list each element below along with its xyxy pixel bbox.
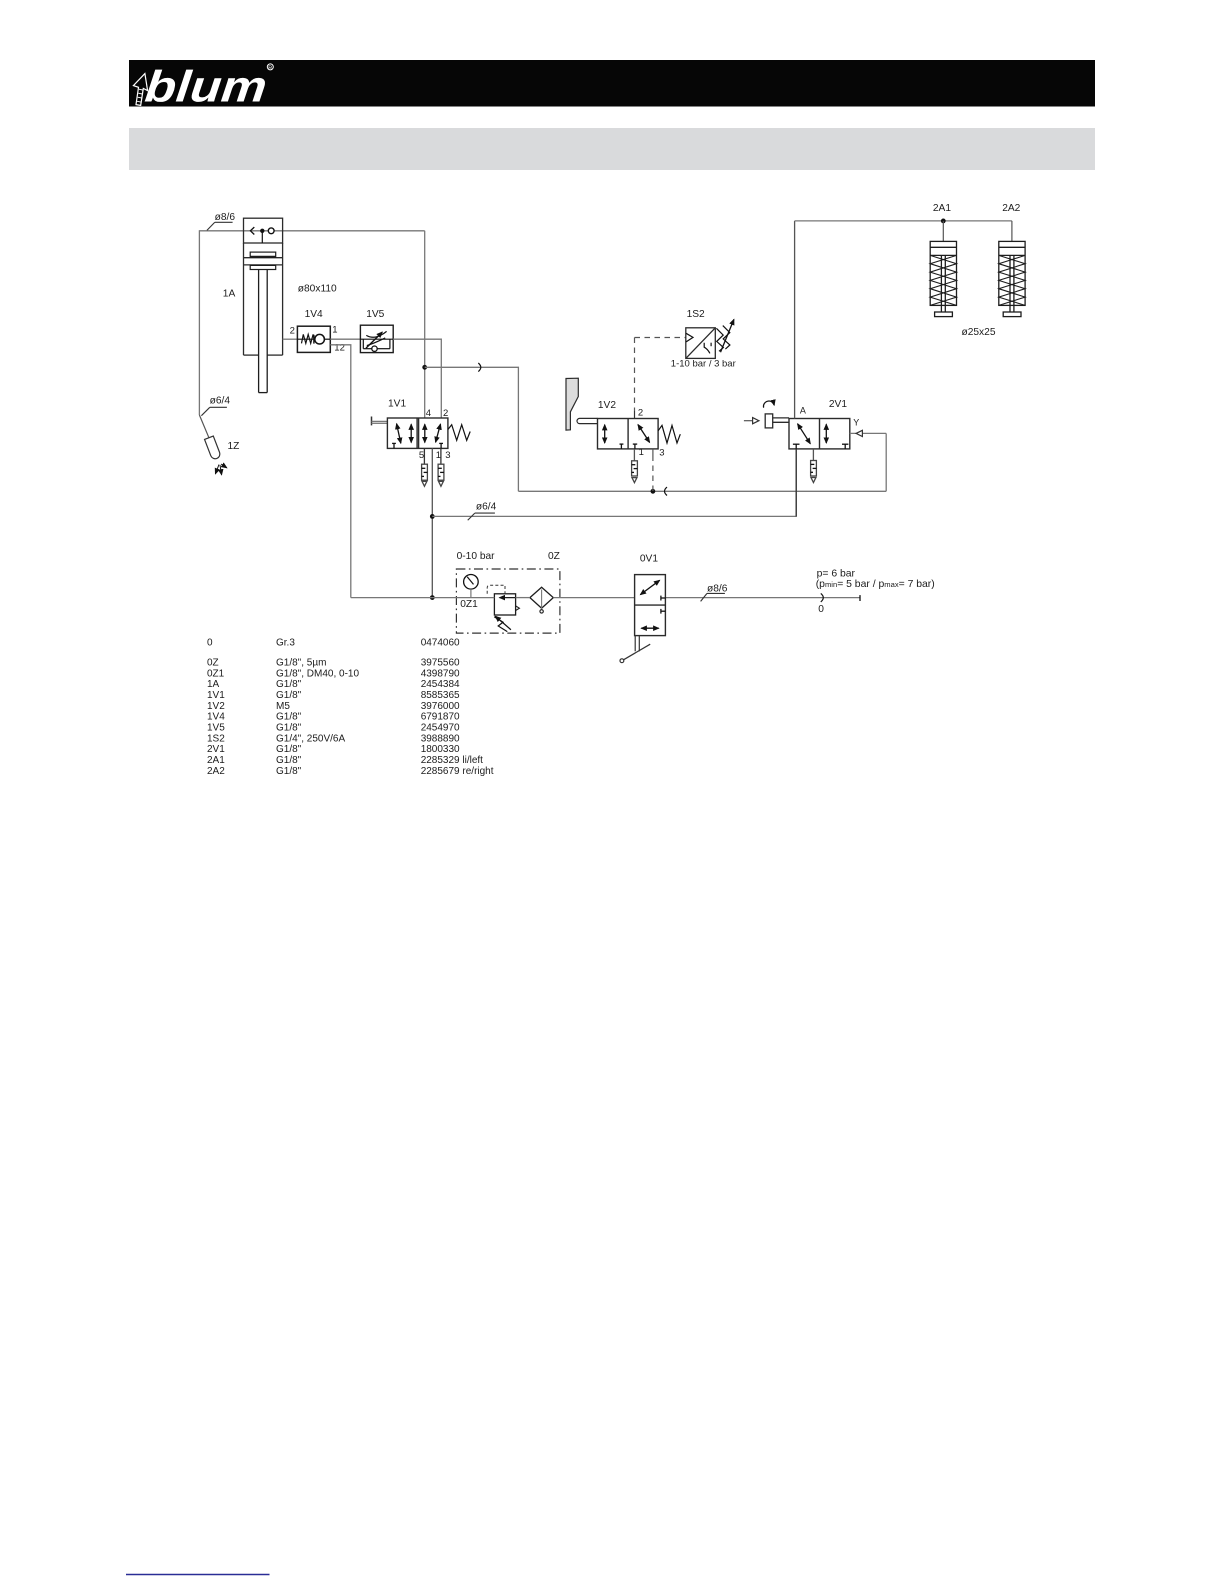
svg-text:0: 0 bbox=[818, 604, 824, 615]
label 1V4 bbox=[305, 309, 323, 320]
svg-text:ø25x25: ø25x25 bbox=[962, 327, 996, 338]
svg-text:ø80x110: ø80x110 bbox=[298, 284, 337, 295]
port label 3 (1V1) bbox=[445, 450, 450, 461]
svg-text:A: A bbox=[800, 406, 806, 416]
svg-text:G1/8": G1/8" bbox=[276, 723, 302, 734]
pressure regulator 0Z1 body bbox=[494, 594, 519, 615]
wire: junction right then down to lower manifold bbox=[425, 367, 519, 491]
valve 1V1 right chamber arrows bbox=[425, 424, 443, 448]
blum logo registered mark bbox=[267, 64, 273, 71]
port label 1 (1V1) bbox=[436, 450, 441, 461]
label 2V1 bbox=[829, 399, 847, 410]
node: junction 1V2 port 3 on manifold bbox=[651, 489, 656, 494]
wire: dashed pressure sensing line 1S2 to 1V2 port 2 bbox=[635, 338, 686, 419]
svg-text:1V1: 1V1 bbox=[388, 399, 406, 410]
cylinder 1A piston rod bbox=[259, 270, 268, 393]
valve 1V1 pilot connection bbox=[372, 417, 388, 426]
valve 0V1 body bbox=[635, 575, 666, 636]
valve 2V1 right chamber arrow bbox=[826, 424, 848, 449]
node: junction to 2A1 bbox=[941, 219, 946, 224]
svg-text:0: 0 bbox=[207, 638, 213, 649]
label ø80x110 bbox=[298, 284, 337, 295]
svg-text:2: 2 bbox=[290, 326, 295, 337]
pressure switch 1S2 spring and adjust arrow bbox=[716, 319, 734, 352]
label ø25x25 bbox=[962, 327, 996, 338]
port label A (2V1) bbox=[800, 406, 806, 416]
svg-text:ø6/4: ø6/4 bbox=[210, 395, 231, 406]
svg-text:G1/8": G1/8" bbox=[276, 679, 302, 690]
silencer on 1V1 port 3 bbox=[438, 464, 444, 486]
svg-text:1A: 1A bbox=[223, 289, 236, 300]
svg-text:2A1: 2A1 bbox=[933, 203, 951, 214]
port label 1 (1V4) bbox=[332, 325, 337, 336]
svg-text:3975560: 3975560 bbox=[421, 658, 460, 669]
supply terminal tick bbox=[859, 595, 861, 601]
svg-text:R: R bbox=[268, 65, 272, 71]
svg-text:G1/8": G1/8" bbox=[276, 690, 302, 701]
label ø8/6 top-left with leader bbox=[207, 212, 235, 231]
svg-text:G1/8", 5µm: G1/8", 5µm bbox=[276, 658, 326, 669]
wire: dashed 1V2 port 3 to manifold bbox=[652, 449, 654, 491]
wire: left vertical down from top line (1Z branch) bbox=[199, 230, 209, 438]
svg-text:4: 4 bbox=[426, 408, 431, 419]
wire: 1A port to 1V4 port 2 bbox=[283, 338, 298, 340]
svg-text:6791870: 6791870 bbox=[421, 712, 460, 723]
spring cylinder 2A1 bbox=[930, 241, 956, 316]
label 0Z bbox=[548, 551, 560, 562]
wire: top right line from 2V1 A riser to 2A2 bbox=[795, 220, 1012, 222]
label ø6/4 left with leader bbox=[201, 395, 230, 415]
svg-text:1: 1 bbox=[639, 447, 644, 458]
svg-text:3: 3 bbox=[445, 450, 450, 461]
wire: stub to 2A1 bbox=[942, 221, 944, 242]
wire: 1V4 port 12 down to bottom supply bbox=[330, 345, 351, 598]
svg-text:1S2: 1S2 bbox=[687, 309, 705, 320]
check valve 1V4 internals (spring + ball) bbox=[297, 334, 330, 344]
valve 0V1 top chamber arrow bbox=[640, 580, 665, 613]
flow chevron on outlet bbox=[821, 593, 824, 602]
wire: top supply line from 1A to node above 1V1 bbox=[199, 230, 424, 232]
label 0 (supply) bbox=[818, 604, 824, 615]
svg-text:G1/8": G1/8" bbox=[276, 712, 302, 723]
port label 5 (1V1) bbox=[419, 450, 424, 461]
air service unit 0Z boundary (dash-dot) bbox=[456, 569, 560, 633]
wire: 1V5 out right then down to 1V1 port 2 bbox=[393, 339, 441, 418]
pressure switch 1S2 contact chevron bbox=[686, 333, 693, 342]
wire: 1V1 port 1 down to bottom supply bbox=[431, 448, 433, 597]
svg-text:2454970: 2454970 bbox=[421, 723, 460, 734]
svg-text:1V5: 1V5 bbox=[207, 723, 225, 734]
svg-text:G1/4", 250V/6A: G1/4", 250V/6A bbox=[276, 733, 345, 744]
svg-text:1Z: 1Z bbox=[228, 441, 240, 452]
parts list bbox=[207, 638, 494, 777]
valve 2V1 rotary knob bbox=[765, 414, 789, 428]
blum logo text bbox=[143, 63, 269, 112]
silencer on 2V1 exhaust bbox=[811, 461, 817, 483]
svg-text:G1/8": G1/8" bbox=[276, 755, 302, 766]
svg-text:0-10 bar: 0-10 bar bbox=[457, 551, 496, 562]
blum logo arrow bbox=[133, 74, 147, 106]
svg-text:ø6/4: ø6/4 bbox=[476, 501, 497, 512]
label 1V2 bbox=[598, 400, 616, 411]
svg-text:0Z1: 0Z1 bbox=[460, 599, 478, 610]
svg-text:1800330: 1800330 bbox=[421, 744, 460, 755]
svg-text:1A: 1A bbox=[207, 679, 220, 690]
check valve 1V4 box bbox=[297, 326, 330, 352]
valve 0V1 bottom chamber arrow bbox=[641, 627, 658, 629]
footer rule bbox=[126, 1574, 270, 1576]
svg-text:0V1: 0V1 bbox=[640, 554, 658, 565]
pressure gauge 0Z1 bbox=[464, 575, 479, 598]
svg-text:ø8/6: ø8/6 bbox=[707, 584, 728, 595]
wire: 1V1 port 5 stub bbox=[423, 448, 425, 464]
label 1Z bbox=[228, 441, 240, 452]
wire: 2V1 port A riser to top line bbox=[794, 221, 796, 419]
cylinder 1A port symbols (check arrow, dot, ring) bbox=[250, 227, 274, 243]
wire: 1V2 port 1 stub bbox=[633, 449, 635, 461]
svg-text:3988890: 3988890 bbox=[421, 733, 460, 744]
valve 2V1 left chamber arrow bbox=[793, 424, 810, 449]
valve 1V1 return spring bbox=[448, 425, 470, 441]
valve 1V2 flag actuator bbox=[566, 378, 578, 430]
svg-text:0Z: 0Z bbox=[548, 551, 560, 562]
pressure regulator pilot (dashed) bbox=[487, 585, 505, 594]
svg-text:2V1: 2V1 bbox=[207, 744, 225, 755]
label pmin pmax bbox=[816, 579, 935, 590]
flow chevron on junction wire bbox=[478, 363, 481, 372]
svg-text:1V2: 1V2 bbox=[598, 400, 616, 411]
filter 0Z bbox=[530, 587, 553, 613]
port label 3 (1V2) bbox=[659, 447, 664, 458]
svg-text:G1/8": G1/8" bbox=[276, 744, 302, 755]
svg-text:1S2: 1S2 bbox=[207, 733, 225, 744]
svg-text:0Z: 0Z bbox=[207, 658, 219, 669]
svg-text:G1/8": G1/8" bbox=[276, 766, 302, 777]
svg-text:2454384: 2454384 bbox=[421, 679, 460, 690]
svg-text:2A2: 2A2 bbox=[207, 766, 225, 777]
port label 12 (1V4) bbox=[334, 343, 345, 354]
svg-text:1-10 bar / 3 bar: 1-10 bar / 3 bar bbox=[671, 359, 736, 370]
node: junction on 1V1 port 4 branch bbox=[422, 365, 427, 370]
wire: stub to 2A2 bbox=[1011, 221, 1013, 242]
svg-text:3976000: 3976000 bbox=[421, 701, 460, 712]
svg-text:M5: M5 bbox=[276, 701, 290, 712]
flow control valve 1V5 internals bbox=[360, 331, 393, 351]
port label 4 (1V1) bbox=[426, 408, 431, 419]
svg-text:2A1: 2A1 bbox=[207, 755, 225, 766]
svg-text:blum: blum bbox=[143, 63, 269, 112]
node: port1/bottom supply junction bbox=[430, 595, 435, 600]
label 1V1 bbox=[388, 399, 406, 410]
valve 1V1 left chamber arrows bbox=[392, 424, 411, 449]
valve 1V2 right chamber arrow bbox=[633, 425, 650, 449]
svg-text:5: 5 bbox=[419, 450, 424, 461]
port label 2 (1V4) bbox=[290, 326, 295, 337]
svg-text:1V1: 1V1 bbox=[207, 690, 225, 701]
wire: 1V4 port 1 to 1V5 bbox=[330, 338, 360, 340]
svg-text:(pmin= 5 bar / pmax= 7 bar): (pmin= 5 bar / pmax= 7 bar) bbox=[816, 579, 935, 590]
port label Y (2V1) bbox=[853, 417, 859, 427]
wire: 1V1 port 3 stub bbox=[440, 448, 442, 464]
svg-text:ø8/6: ø8/6 bbox=[215, 212, 236, 223]
valve 1V2 left chamber arrow bbox=[605, 425, 624, 449]
svg-text:Gr.3: Gr.3 bbox=[276, 638, 295, 649]
pressure switch 1S2 micro switch symbol bbox=[704, 343, 711, 354]
node: port1/ø6/4 junction bbox=[430, 514, 435, 519]
spring cylinder 2A2 bbox=[999, 241, 1025, 316]
svg-text:2285679 re/right: 2285679 re/right bbox=[421, 766, 494, 777]
svg-text:2: 2 bbox=[443, 408, 448, 419]
valve 1V2 body bbox=[598, 419, 659, 449]
valve 1V1 body bbox=[387, 418, 448, 448]
port label 2 (1V2) bbox=[638, 408, 643, 419]
svg-text:3: 3 bbox=[659, 447, 664, 458]
label 2A1 bbox=[933, 203, 951, 214]
label 0Z1 bbox=[460, 599, 478, 610]
svg-text:G1/8", DM40, 0-10: G1/8", DM40, 0-10 bbox=[276, 668, 359, 679]
svg-text:2V1: 2V1 bbox=[829, 399, 847, 410]
label 2A2 bbox=[1002, 203, 1020, 214]
flow chevron on manifold bbox=[665, 487, 668, 495]
header black bar bbox=[129, 60, 1095, 107]
label 1V5 bbox=[366, 309, 384, 320]
wire: 2V1 exhaust stub bbox=[812, 449, 814, 461]
label ø8/6 at 0V1 with leader bbox=[701, 584, 728, 602]
svg-text:1V5: 1V5 bbox=[366, 309, 384, 320]
svg-text:1: 1 bbox=[332, 325, 337, 336]
svg-text:2A2: 2A2 bbox=[1002, 203, 1020, 214]
svg-text:0Z1: 0Z1 bbox=[207, 668, 225, 679]
cylinder 1A piston plates bbox=[250, 252, 276, 269]
svg-text:8585365: 8585365 bbox=[421, 690, 460, 701]
svg-text:2: 2 bbox=[638, 408, 643, 419]
wire: lower manifold horizontal to 2V1 Y riser bbox=[518, 490, 886, 492]
label 1S2 bbox=[687, 309, 705, 320]
nozzle 1Z bbox=[205, 436, 222, 460]
valve 2V1 body bbox=[789, 419, 850, 449]
port label 1 (1V2) bbox=[639, 447, 644, 458]
silencer on 1V1 port 5 bbox=[422, 464, 428, 486]
svg-text:2285329 li/left: 2285329 li/left bbox=[421, 755, 483, 766]
svg-text:4398790: 4398790 bbox=[421, 668, 460, 679]
label 0-10 bar bbox=[457, 551, 496, 562]
flow control valve 1V5 box bbox=[360, 325, 393, 352]
label 0V1 bbox=[640, 554, 658, 565]
wire: 2V1 lower port down across manifold to ø6/4 line bbox=[795, 449, 797, 517]
pressure switch 1S2 box bbox=[686, 328, 716, 359]
svg-text:1V2: 1V2 bbox=[207, 701, 225, 712]
cylinder 1A body bbox=[244, 218, 283, 355]
valve 0V1 manual lever bbox=[620, 636, 650, 663]
wire: ø6/4 line from junction to 2V1 lower port bbox=[432, 449, 796, 517]
svg-text:0474060: 0474060 bbox=[421, 638, 460, 649]
pressure regulator spring with adjust arrow bbox=[494, 616, 511, 631]
svg-text:1V4: 1V4 bbox=[305, 309, 323, 320]
label p= 6 bar bbox=[817, 569, 856, 580]
valve 2V1 pilot arrow bbox=[744, 418, 759, 424]
valve 1V2 lever bbox=[577, 418, 598, 423]
gray title bar bbox=[129, 128, 1095, 170]
label 1A bbox=[223, 289, 236, 300]
wire: vertical from top line down to 1V1 port 4 bbox=[424, 231, 426, 418]
wire: bottom supply segments bbox=[351, 597, 860, 599]
port label 2 (1V1) bbox=[443, 408, 448, 419]
svg-text:1V4: 1V4 bbox=[207, 712, 225, 723]
valve 2V1 rotation arc bbox=[763, 401, 774, 408]
nozzle 1Z spray arrows bbox=[215, 464, 226, 475]
label 1-10 bar / 3 bar bbox=[671, 359, 736, 370]
valve 1V2 return spring bbox=[658, 425, 680, 443]
wire: 2V1 port Y with arrowhead and riser from manifold bbox=[850, 430, 886, 491]
silencer on 1V2 port 1 bbox=[632, 461, 638, 483]
label ø6/4 middle with leader bbox=[468, 501, 497, 520]
svg-text:Y: Y bbox=[853, 417, 859, 427]
